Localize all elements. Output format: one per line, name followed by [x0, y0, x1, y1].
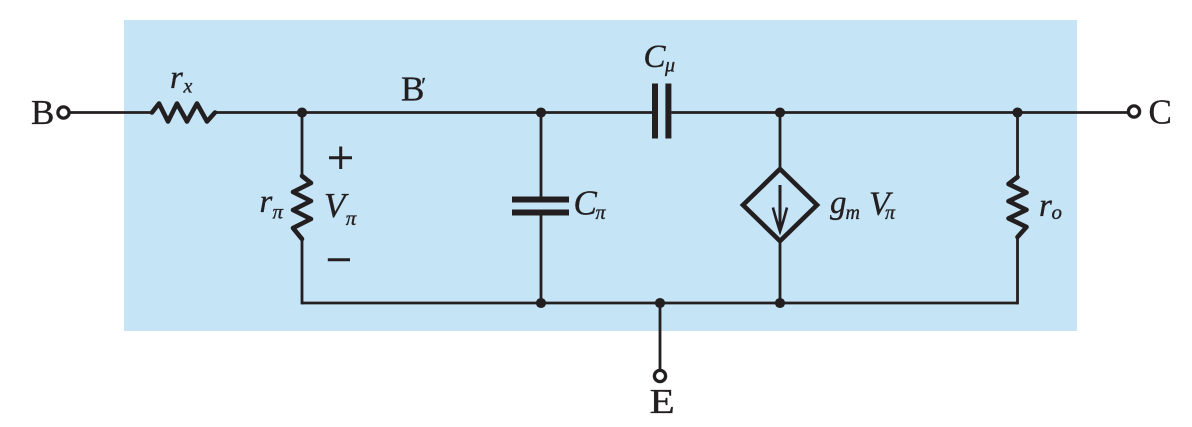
- svg-text:m: m: [846, 202, 860, 224]
- svg-text:x: x: [183, 76, 193, 98]
- svg-text:C: C: [574, 184, 598, 223]
- svg-text:π: π: [596, 202, 607, 224]
- svg-text:r: r: [1039, 188, 1052, 224]
- svg-text:g: g: [830, 185, 847, 221]
- svg-text:E: E: [650, 383, 675, 421]
- svg-text:C: C: [1149, 93, 1172, 132]
- svg-text:o: o: [1052, 200, 1063, 224]
- svg-text:′: ′: [421, 72, 426, 97]
- svg-text:r: r: [170, 60, 183, 96]
- svg-text:C: C: [644, 39, 667, 75]
- svg-text:π: π: [346, 206, 357, 230]
- svg-text:π: π: [273, 200, 284, 224]
- svg-text:π: π: [885, 202, 896, 224]
- svg-text:B: B: [31, 93, 54, 132]
- svg-text:r: r: [260, 184, 273, 220]
- svg-text:μ: μ: [664, 55, 675, 77]
